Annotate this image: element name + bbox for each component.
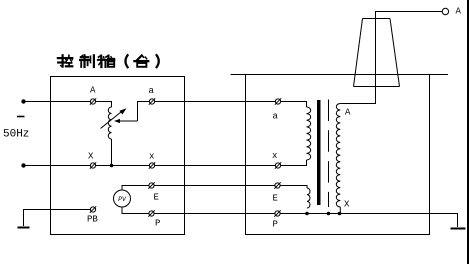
svg-text:P: P <box>273 220 278 230</box>
measuring winding E-P <box>307 188 310 208</box>
AC source terminal N (bottom dot) <box>21 163 25 167</box>
svg-text:a: a <box>273 112 279 122</box>
wire: source N / net X bus to primary winding <box>24 160 307 166</box>
ground (left) <box>18 227 30 229</box>
char 制 <box>80 55 94 67</box>
wire: wiper to terminal a (net a) <box>138 102 307 122</box>
terminal PB <box>90 206 96 212</box>
wire: autotransformer bottom to net X <box>111 139 113 166</box>
page border (right) <box>467 0 469 264</box>
junction: HV winding X to net P <box>338 212 342 216</box>
terminal E <box>148 182 154 188</box>
svg-text:E: E <box>154 193 159 203</box>
svg-text:X: X <box>88 152 94 162</box>
svg-text:a: a <box>149 86 155 96</box>
terminal A <box>90 98 96 104</box>
char ） <box>157 55 159 67</box>
core earth screen (dashed) <box>328 100 330 208</box>
ground (right) <box>451 228 466 230</box>
AC tilde mark <box>17 116 25 118</box>
HV output terminal A <box>442 8 448 14</box>
autotransformer wiper arrow <box>114 119 138 123</box>
voltmeter PV <box>114 190 131 207</box>
svg-text:E: E <box>273 194 278 204</box>
wire: voltmeter bottom to terminal P (net P bus) <box>122 207 458 227</box>
junction: autotransformer to net X <box>110 164 114 168</box>
bushing <box>354 19 400 87</box>
terminal a <box>149 98 155 104</box>
svg-text:PV: PV <box>118 196 127 203</box>
terminal X <box>90 162 96 168</box>
transformer primary winding a-x <box>307 107 311 160</box>
junction: core screen to net P <box>327 212 331 216</box>
control box enclosure <box>51 77 185 235</box>
junction: measuring winding to net P <box>305 212 309 216</box>
terminal x <box>149 162 155 168</box>
char （ <box>125 55 127 67</box>
wire: voltmeter top to terminal E (net E) <box>122 186 307 191</box>
transformer tank enclosure <box>246 75 430 235</box>
iron core <box>317 100 321 205</box>
wire: HV winding top through bushing to output <box>340 12 442 104</box>
wire: source L to autotransformer top (net A) <box>24 102 112 108</box>
svg-text:x: x <box>149 152 154 162</box>
svg-text:X: X <box>344 200 350 210</box>
svg-text:50Hz: 50Hz <box>3 129 29 141</box>
terminal P (tank) <box>274 210 280 216</box>
char 控 <box>58 55 72 67</box>
terminal E (tank) <box>274 182 280 188</box>
svg-text:x: x <box>272 151 277 161</box>
terminal a (tank) <box>275 98 281 104</box>
wire: HV winding bottom to net P <box>339 207 341 214</box>
autotransformer T1 winding <box>108 107 111 139</box>
title 控制箱（台） <box>58 55 159 67</box>
svg-text:A: A <box>90 86 96 96</box>
svg-text:A: A <box>345 108 351 118</box>
terminal P <box>148 210 154 216</box>
char 箱 <box>98 55 114 67</box>
terminal x (tank) <box>275 162 281 168</box>
svg-text:A: A <box>456 7 462 17</box>
AC source terminal L (top dot) <box>21 99 25 103</box>
wire: terminal PB to left ground <box>24 210 91 227</box>
transformer tank lid <box>231 74 449 76</box>
svg-text:PB: PB <box>87 215 98 225</box>
char 台 <box>134 55 148 66</box>
transformer HV winding A-X <box>336 104 340 208</box>
svg-text:P: P <box>155 219 160 229</box>
autotransformer variability arrow <box>101 108 127 128</box>
